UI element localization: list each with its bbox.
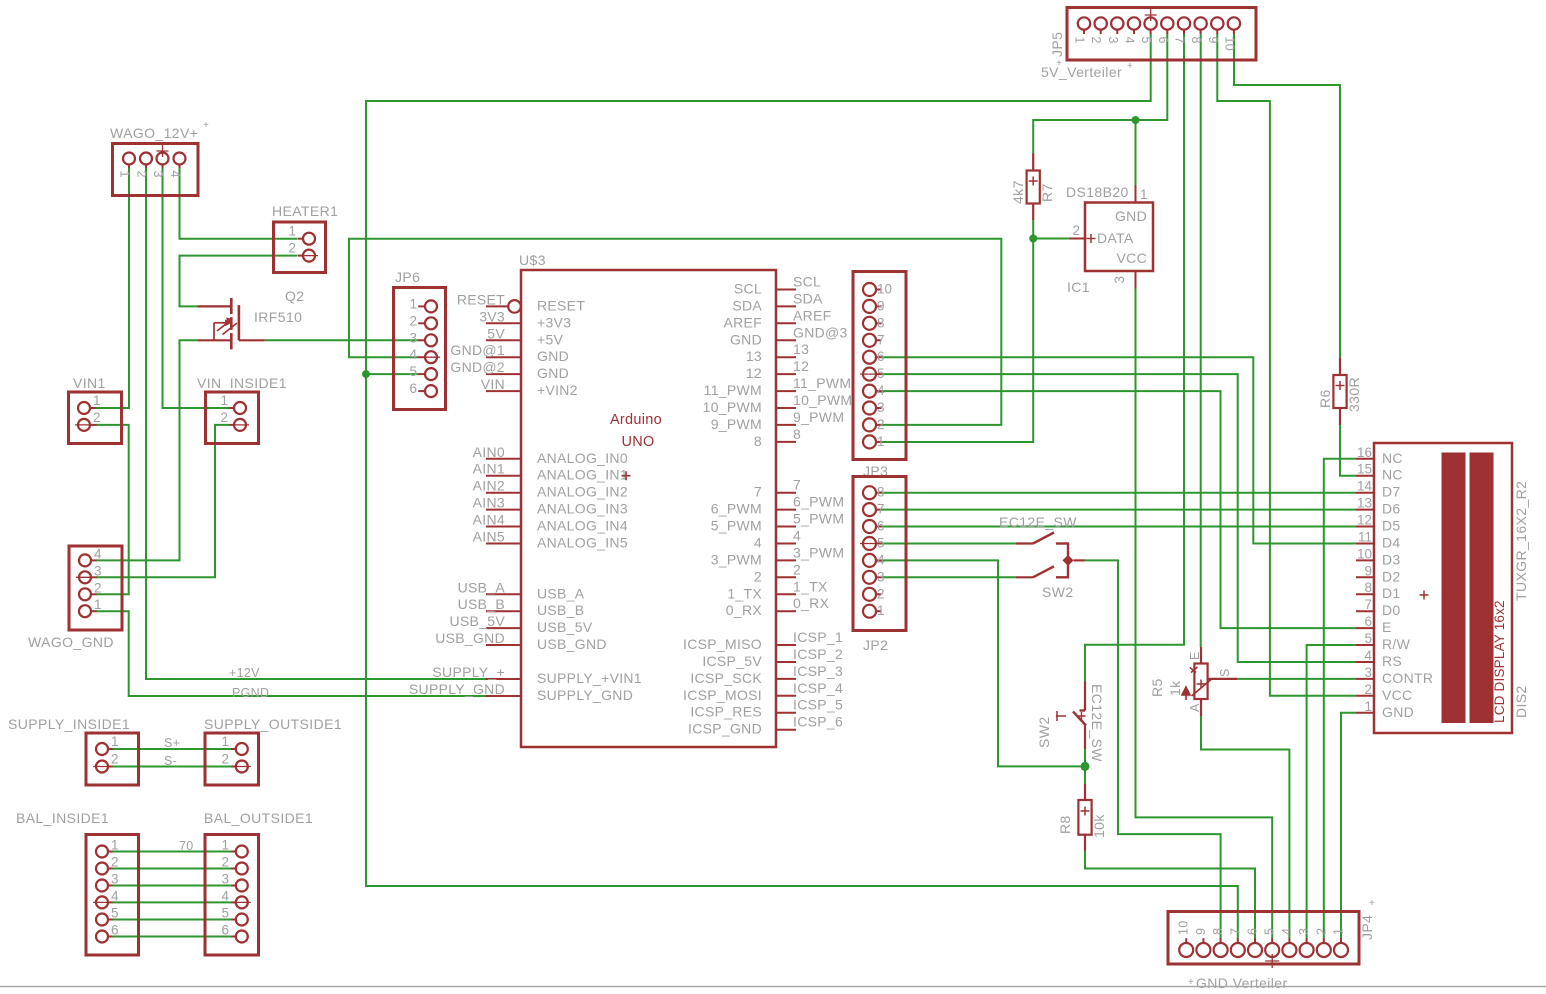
svg-text:ICSP_3: ICSP_3: [793, 663, 843, 679]
wire WAGO_12V.1 to VIN1.1: [96, 168, 129, 409]
svg-text:UNO: UNO: [621, 434, 654, 450]
svg-text:2: 2: [754, 568, 762, 584]
U$3 right pins SCL..8: [776, 290, 796, 442]
svg-text:GND@3: GND@3: [793, 324, 848, 340]
U$3 left pins RESET..VIN: [486, 300, 521, 391]
svg-text:BAL_INSIDE1: BAL_INSIDE1: [16, 810, 109, 826]
label WAGO_12V+: [110, 120, 209, 141]
pin numbers SUPPLY_OUTSIDE1: [221, 734, 229, 767]
svg-text:5V_Verteiler: 5V_Verteiler: [1041, 64, 1122, 80]
svg-text:5: 5: [409, 364, 417, 379]
svg-text:ICSP_1: ICSP_1: [793, 629, 843, 645]
svg-text:E: E: [1382, 619, 1392, 635]
svg-text:8: 8: [754, 433, 762, 449]
svg-text:JP4: JP4: [1359, 915, 1375, 940]
U$3 ICSP pin labels: [683, 629, 843, 737]
svg-text:1: 1: [220, 393, 228, 408]
label JP5: [1049, 32, 1065, 69]
svg-text:USB_A: USB_A: [458, 579, 506, 595]
svg-text:5_PWM: 5_PWM: [711, 518, 762, 534]
svg-text:SUPPLY_INSIDE1: SUPPLY_INSIDE1: [8, 716, 130, 732]
U$3 USB pin labels: [435, 579, 607, 652]
pin numbers JP4 10..1: [1177, 920, 1346, 935]
pin numbers SUPPLY_INSIDE1: [111, 734, 119, 767]
wire Q2 gate to JP6.3: [265, 339, 419, 341]
connector JP6: [394, 288, 446, 410]
svg-text:ICSP_RES: ICSP_RES: [690, 704, 762, 720]
wire WAGO_12V.4 to HEATER1.1: [180, 168, 298, 239]
DIS2 pin numbers 16..1: [1357, 445, 1373, 714]
svg-text:3V3: 3V3: [479, 308, 505, 324]
svg-text:SUPPLY_GND: SUPPLY_GND: [409, 681, 505, 697]
svg-text:10: 10: [1357, 546, 1372, 561]
svg-text:4k7: 4k7: [1010, 180, 1026, 204]
svg-text:1_TX: 1_TX: [793, 578, 828, 594]
svg-text:8: 8: [793, 426, 801, 442]
svg-text:S: S: [1218, 669, 1232, 677]
wire BAL net 3: [112, 885, 232, 887]
junction rail / JP6.5: [362, 370, 370, 378]
svg-text:ICSP_2: ICSP_2: [793, 646, 843, 662]
wire WAGO_12V.3 to VIN_INSIDE1.1: [163, 168, 231, 409]
pin numbers VIN1: [93, 393, 101, 425]
connector VIN_INSIDE1: [206, 392, 259, 444]
svg-text:4: 4: [94, 546, 102, 561]
svg-text:5: 5: [1364, 631, 1372, 646]
svg-text:6_PWM: 6_PWM: [793, 494, 844, 510]
svg-text:AREF: AREF: [723, 314, 762, 330]
svg-text:3: 3: [409, 330, 417, 345]
origin cross at VIN1 pin2 origin: [75, 424, 93, 426]
svg-text:13: 13: [746, 348, 762, 364]
wire SW2 lower to R8: [1084, 749, 1086, 784]
connector SUPPLY_INSIDE1: [86, 733, 139, 785]
svg-text:SUPPLY_OUTSIDE1: SUPPLY_OUTSIDE1: [204, 716, 342, 732]
pin numbers JP6 1-6: [409, 296, 417, 396]
wire HEATER1.2 to Q2 drain: [180, 256, 298, 307]
svg-text:A: A: [1188, 703, 1202, 712]
svg-text:+: +: [203, 120, 209, 131]
svg-text:Q2: Q2: [285, 288, 304, 304]
wire net JP5.10 to R6 top: [1234, 34, 1340, 359]
wire DATA stub to IC1 pin2: [1033, 238, 1069, 240]
svg-text:7: 7: [1364, 597, 1372, 612]
svg-text:3: 3: [1112, 276, 1127, 284]
wire R5.A to JP4.4: [1201, 716, 1289, 939]
wire JP2.5 to SW2 contact A: [881, 543, 1016, 545]
svg-text:DIS2: DIS2: [1513, 685, 1529, 718]
svg-text:7: 7: [793, 477, 801, 493]
svg-text:2: 2: [1072, 223, 1080, 238]
U$3 right pins 7..0_RX: [776, 493, 796, 612]
svg-text:AIN1: AIN1: [473, 461, 505, 477]
svg-text:IRF510: IRF510: [254, 309, 302, 325]
connector BAL_OUTSIDE1: [205, 835, 259, 956]
svg-text:R5: R5: [1149, 678, 1165, 697]
wire LCD NC16 to JP4.2: [1324, 459, 1356, 939]
display DIS2 LCD TUXGR_16X2_R2: [1356, 443, 1512, 733]
svg-text:4: 4: [1364, 648, 1372, 663]
svg-text:10_PWM: 10_PWM: [703, 399, 762, 415]
svg-text:VIN_INSIDE1: VIN_INSIDE1: [197, 375, 287, 391]
origin cross at JP6 pin4 origin: [422, 356, 440, 358]
wire Q2 source to WAGO_GND.4: [96, 340, 197, 560]
svg-text:15: 15: [1357, 462, 1372, 477]
svg-text:1: 1: [877, 434, 885, 449]
svg-text:9_PWM: 9_PWM: [793, 409, 844, 425]
svg-text:10: 10: [1222, 37, 1236, 52]
connector BAL_INSIDE1: [86, 835, 139, 956]
svg-text:2: 2: [409, 313, 417, 328]
svg-text:0_RX: 0_RX: [726, 602, 763, 618]
wire SW2 common to JP4.8: [1084, 560, 1221, 938]
svg-text:R/W: R/W: [1382, 636, 1411, 652]
svg-text:2: 2: [111, 855, 119, 870]
svg-text:7: 7: [877, 332, 885, 347]
origin cross at SUPPLY_OUTSIDE1 pin2 origin: [233, 766, 251, 768]
svg-text:AIN5: AIN5: [473, 529, 505, 545]
pin numbers JP2 8..1: [877, 485, 885, 619]
svg-text:SUPPLY_GND: SUPPLY_GND: [537, 687, 633, 703]
connector HEATER1: [274, 222, 326, 273]
svg-text:7: 7: [1173, 37, 1187, 44]
svg-text:3: 3: [1297, 928, 1311, 935]
svg-text:TUXGR_16X2_R2: TUXGR_16X2_R2: [1513, 481, 1529, 601]
svg-text:4: 4: [168, 171, 182, 178]
svg-text:1: 1: [111, 838, 119, 853]
wire net JP5.6 to R7 top: [1033, 34, 1167, 154]
svg-text:2: 2: [1089, 37, 1103, 44]
svg-text:2: 2: [877, 417, 885, 432]
U$3 USB pins: [486, 594, 521, 645]
svg-text:3: 3: [1364, 665, 1372, 680]
U$3 right pin labels group2: [711, 477, 845, 619]
pin numbers JP5 1-10: [1073, 9, 1237, 51]
wire R8 bottom to JP4.6: [1085, 851, 1255, 939]
wire JP3.5 to LCD RS: [881, 374, 1356, 662]
svg-text:+: +: [1127, 61, 1133, 72]
potentiometer R5 1k: [1182, 647, 1237, 716]
label 5V_Verteiler: [1041, 61, 1133, 80]
wire JP3.6 to LCD D4: [881, 357, 1356, 543]
svg-text:13: 13: [1357, 496, 1372, 511]
svg-text:8: 8: [877, 315, 885, 330]
svg-text:E: E: [1188, 652, 1202, 660]
svg-text:EC12E_SW: EC12E_SW: [999, 514, 1077, 530]
svg-text:USB_B: USB_B: [458, 596, 505, 612]
svg-text:1: 1: [93, 393, 101, 408]
origin cross at JP4 pin5 origin: [1265, 954, 1279, 968]
connector WAGO_GND: [69, 546, 122, 630]
svg-text:BAL_OUTSIDE1: BAL_OUTSIDE1: [204, 810, 313, 826]
wire R5.S to LCD CONTR: [1237, 678, 1356, 680]
svg-text:D0: D0: [1382, 602, 1401, 618]
svg-text:6: 6: [877, 519, 885, 534]
op-amp/IC U$3 Arduino UNO main symbol: [521, 270, 776, 747]
junction SW2/R8/JP2.4 node: [1081, 762, 1090, 771]
svg-text:3: 3: [111, 872, 119, 887]
svg-text:2: 2: [1314, 928, 1328, 935]
wire branch to JP2.4: [881, 560, 1085, 766]
svg-text:4: 4: [409, 347, 417, 362]
svg-text:AIN3: AIN3: [473, 495, 505, 511]
svg-text:8: 8: [877, 485, 885, 500]
svg-text:R7: R7: [1039, 183, 1055, 202]
svg-text:JP6: JP6: [395, 269, 420, 285]
svg-text:1k: 1k: [1167, 680, 1183, 696]
node SW2 common (diamond): [1063, 555, 1074, 566]
svg-text:HEATER1: HEATER1: [272, 203, 338, 219]
U$3 left pin labels group1: [450, 291, 585, 398]
svg-text:9: 9: [1206, 37, 1220, 44]
svg-text:3_PWM: 3_PWM: [793, 544, 844, 560]
wire net JP5.7 to SW2 lower: [1085, 34, 1184, 682]
svg-text:1: 1: [221, 734, 229, 749]
svg-text:1: 1: [1364, 699, 1372, 714]
svg-text:4: 4: [793, 528, 801, 544]
svg-text:12: 12: [746, 365, 762, 381]
svg-text:ICSP_4: ICSP_4: [793, 680, 843, 696]
svg-text:4: 4: [877, 552, 885, 567]
svg-text:9: 9: [1194, 928, 1208, 935]
svg-text:GND: GND: [730, 331, 762, 347]
svg-text:3_PWM: 3_PWM: [711, 551, 762, 567]
origin cross at WAGO_12V pin3 origin: [157, 145, 169, 157]
svg-text:14: 14: [1357, 479, 1373, 494]
svg-text:70: 70: [179, 839, 194, 853]
connector SUPPLY_OUTSIDE1: [205, 733, 259, 785]
wire branch to IC1 GND pin: [1135, 120, 1137, 185]
svg-text:SCL: SCL: [793, 274, 821, 290]
svg-text:D4: D4: [1382, 535, 1401, 551]
svg-text:CONTR: CONTR: [1382, 670, 1433, 686]
svg-text:WAGO_GND: WAGO_GND: [28, 634, 114, 650]
resistor R6 330R: [1333, 358, 1346, 425]
svg-text:12: 12: [793, 358, 809, 374]
origin cross at JP3 pin5 origin: [860, 373, 879, 375]
svg-text:RS: RS: [1382, 653, 1402, 669]
svg-text:1: 1: [288, 224, 296, 239]
wire JP6.4 to JP3.2: [349, 239, 1001, 425]
wire R7 bottom / DATA to JP3.1: [881, 220, 1033, 442]
svg-text:AIN2: AIN2: [473, 478, 505, 494]
svg-text:3: 3: [1106, 37, 1120, 44]
svg-text:2: 2: [94, 580, 102, 595]
svg-text:8: 8: [1211, 928, 1225, 935]
svg-text:7: 7: [754, 484, 762, 500]
svg-text:0_RX: 0_RX: [793, 595, 830, 611]
origin cross at JP5 pin5 origin: [1145, 9, 1157, 21]
switch SW2 upper (EC12E_SW contacts): [1016, 533, 1068, 579]
origin cross at HEATER1 pin2 origin: [300, 255, 318, 257]
svg-text:ANALOG_IN1: ANALOG_IN1: [537, 467, 628, 483]
svg-text:10_PWM: 10_PWM: [793, 392, 852, 408]
junction DATA node: [1029, 235, 1037, 243]
origin cross at BAL_OUTSIDE1 pin4 origin: [233, 901, 251, 903]
svg-text:11: 11: [1358, 530, 1372, 545]
svg-text:IC1: IC1: [1067, 279, 1090, 295]
svg-text:EC12E_SW: EC12E_SW: [1089, 684, 1105, 762]
svg-text:SW2: SW2: [1036, 716, 1052, 748]
svg-text:D3: D3: [1382, 551, 1401, 567]
svg-text:1: 1: [1140, 187, 1148, 202]
transistor Q2: [197, 298, 264, 350]
svg-text:9: 9: [1364, 563, 1372, 578]
wire +12V net to SUPPLY_+VIN1: [146, 168, 487, 680]
svg-text:1: 1: [111, 734, 119, 749]
U$3 right pin labels group1: [703, 274, 853, 449]
svg-text:+3V3: +3V3: [537, 314, 571, 330]
svg-text:2: 2: [1364, 682, 1372, 697]
svg-text:3: 3: [94, 563, 102, 578]
svg-text:1: 1: [877, 603, 885, 618]
svg-text:USB_5V: USB_5V: [450, 613, 506, 629]
svg-text:LCD DISPLAY 16x2: LCD DISPLAY 16x2: [1492, 600, 1507, 723]
svg-text:5_PWM: 5_PWM: [793, 511, 844, 527]
svg-text:12: 12: [1357, 513, 1372, 528]
origin cross at WAGO_GND pin3 origin: [76, 576, 94, 578]
wire JP2.6 to LCD D5: [881, 526, 1356, 528]
svg-text:D6: D6: [1382, 501, 1401, 517]
svg-text:RESET: RESET: [457, 291, 505, 307]
IC IC1 DS18B20: [1069, 185, 1153, 289]
U$3 supply pins: [486, 679, 521, 696]
wire JP6 pin5 branch: [366, 373, 419, 375]
wire JP3.4 to LCD E: [881, 391, 1356, 628]
svg-text:JP5: JP5: [1049, 32, 1065, 57]
svg-text:13: 13: [793, 341, 809, 357]
svg-text:10: 10: [877, 282, 892, 297]
svg-text:ICSP_MISO: ICSP_MISO: [683, 636, 762, 652]
junction JP5.6 / IC1 GND: [1132, 116, 1140, 124]
svg-text:ANALOG_IN5: ANALOG_IN5: [537, 535, 628, 551]
svg-text:3: 3: [221, 872, 229, 887]
svg-text:SW2: SW2: [1042, 584, 1074, 600]
origin cross at SUPPLY_INSIDE1 pin2 origin: [93, 766, 111, 768]
svg-text:GND@2: GND@2: [450, 359, 505, 375]
origin cross at JP2 pin5 origin: [860, 543, 879, 545]
wire JP2.7 to LCD D6: [881, 509, 1356, 511]
svg-text:+VIN2: +VIN2: [537, 382, 578, 398]
origin cross at BAL_INSIDE1 pin4 origin: [93, 901, 111, 903]
svg-text:VCC: VCC: [1382, 687, 1412, 703]
wire LCD GND to JP4.1: [1341, 713, 1356, 939]
svg-text:+12V: +12V: [229, 666, 260, 680]
svg-text:6: 6: [877, 349, 885, 364]
svg-text:D2: D2: [1382, 568, 1401, 584]
connector JP4 (GND Verteiler header): [1168, 912, 1359, 969]
svg-text:AIN0: AIN0: [473, 444, 505, 460]
wire VIN_INSIDE1.2 to WAGO_GND.3: [96, 425, 230, 577]
svg-text:2: 2: [93, 410, 101, 425]
wire net JP5.9 to LCD VCC: [1217, 34, 1356, 696]
label JP4: [1359, 898, 1375, 940]
svg-text:2: 2: [288, 241, 296, 256]
svg-text:3: 3: [877, 400, 885, 415]
svg-text:1: 1: [118, 171, 132, 178]
wire JP2.8 to LCD D7: [881, 492, 1356, 494]
svg-text:DS18B20: DS18B20: [1066, 184, 1129, 200]
svg-text:ICSP_5: ICSP_5: [793, 697, 843, 713]
svg-text:6: 6: [221, 923, 229, 938]
svg-text:4: 4: [754, 535, 762, 551]
svg-text:5: 5: [877, 536, 885, 551]
connector VIN1: [69, 392, 122, 444]
switch SW2 lower (EC12E_SW pushbutton): [1056, 682, 1086, 750]
pin numbers VIN_INSIDE1: [220, 393, 228, 425]
svg-text:SUPPLY_+VIN1: SUPPLY_+VIN1: [537, 670, 642, 686]
svg-text:11_PWM: 11_PWM: [793, 375, 851, 391]
U$3 supply pin labels: [409, 664, 642, 703]
wire IC1 VCC to JP4.5: [1136, 289, 1273, 939]
svg-text:6: 6: [111, 923, 119, 938]
svg-text:ANALOG_IN4: ANALOG_IN4: [537, 518, 628, 534]
svg-text:ANALOG_IN0: ANALOG_IN0: [537, 450, 628, 466]
wire LCD R/W to JP4.3: [1307, 645, 1356, 939]
svg-text:6_PWM: 6_PWM: [711, 501, 762, 517]
svg-text:8: 8: [1364, 580, 1372, 595]
svg-text:GND: GND: [537, 365, 569, 381]
svg-text:1: 1: [1332, 928, 1346, 935]
pin numbers WAGO_GND 4..1: [94, 546, 102, 612]
svg-text:AIN4: AIN4: [473, 512, 505, 528]
svg-text:JP2: JP2: [863, 637, 888, 653]
origin cross at VIN_INSIDE1 pin2 origin: [231, 424, 249, 426]
svg-text:11_PWM: 11_PWM: [704, 382, 762, 398]
svg-text:ICSP_6: ICSP_6: [793, 714, 843, 730]
svg-text:GND: GND: [1115, 208, 1147, 224]
wire BAL net 5: [112, 919, 232, 921]
pin numbers JP3 10..1: [877, 282, 892, 449]
svg-text:SDA: SDA: [793, 290, 823, 306]
svg-text:4: 4: [877, 383, 885, 398]
svg-text:2: 2: [221, 752, 229, 767]
wire net JP5.5 rail to JP4.7: [366, 34, 1238, 939]
svg-text:4: 4: [221, 888, 229, 903]
pin numbers HEATER1: [288, 224, 296, 256]
wire JP2.3 to SW2 contact B: [881, 576, 1016, 578]
pin numbers BAL_INSIDE1 1-6: [111, 838, 119, 938]
svg-text:ICSP_GND: ICSP_GND: [688, 721, 762, 737]
SW2 common lead: [1074, 559, 1085, 561]
svg-text:VCC: VCC: [1117, 250, 1147, 266]
connector JP3: [853, 272, 906, 460]
svg-text:2: 2: [135, 171, 149, 178]
svg-text:1: 1: [94, 597, 102, 612]
svg-text:ICSP_SCK: ICSP_SCK: [690, 670, 762, 686]
svg-text:+: +: [1369, 898, 1375, 909]
resistor R7 4k7: [1027, 154, 1040, 221]
frame border bottom: [0, 986, 1546, 988]
svg-text:330R: 330R: [1346, 377, 1362, 412]
svg-text:RESET: RESET: [537, 297, 585, 313]
svg-text:ANALOG_IN3: ANALOG_IN3: [537, 501, 628, 517]
svg-text:6: 6: [1364, 614, 1372, 629]
svg-text:3: 3: [151, 171, 165, 178]
svg-text:10k: 10k: [1091, 814, 1107, 838]
svg-text:2: 2: [111, 752, 119, 767]
svg-text:GND: GND: [537, 348, 569, 364]
svg-text:7: 7: [1228, 928, 1242, 935]
svg-text:USB_5V: USB_5V: [537, 619, 593, 635]
svg-text:AREF: AREF: [793, 307, 832, 323]
svg-text:NC: NC: [1382, 450, 1403, 466]
svg-text:USB_A: USB_A: [537, 585, 585, 601]
svg-text:5: 5: [111, 906, 119, 921]
svg-text:S-: S-: [164, 754, 177, 768]
wire BAL net 1: [112, 851, 232, 853]
svg-text:3: 3: [877, 569, 885, 584]
